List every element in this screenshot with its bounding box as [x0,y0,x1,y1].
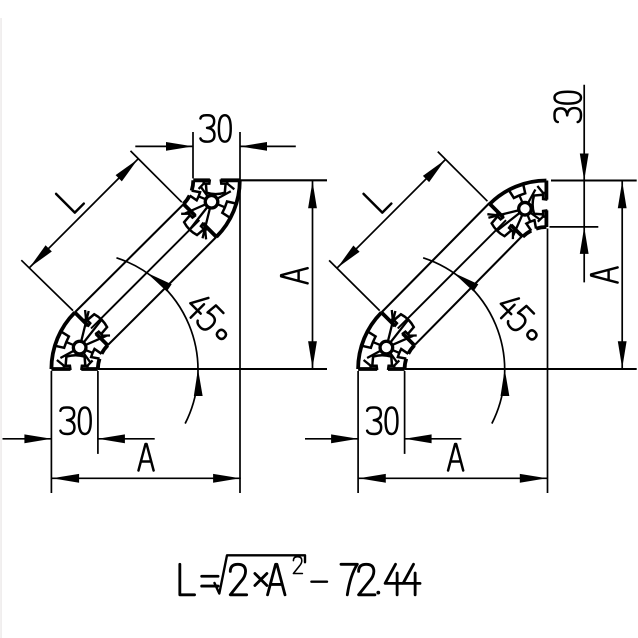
view 2: horizontal A dim right arrow [520,474,547,483]
view 1: label 30 (top) [200,115,230,141]
formula: letter A [268,564,285,595]
view 1: horizontal A dim line [51,477,240,479]
view 1: degree sign [215,328,227,340]
view 1: top 30 dim right arrow [240,142,267,151]
view 2: bar top edge [382,203,490,312]
view 2: horizontal A dim left arrow [359,474,386,483]
view 2: bottom 30 dim left tail [305,438,358,440]
formula: minus sign [311,581,327,583]
view 2: label L [364,185,392,213]
formula: equals sign [202,576,218,586]
view 1: horizontal A dim left arrow [52,474,79,483]
formula: square root radical [215,555,306,593]
view 2: vertical A dim line [621,181,623,370]
view 1: L dim lower arrow [26,245,51,270]
formula: L [180,564,195,595]
view 2: label 45 [494,292,535,333]
view 1: L dim upper extension line [131,151,182,202]
formula: multiplication sign [255,574,267,586]
view 2: vertical 30 dim line [583,85,585,283]
view 2: vertical 30 dim down arrow [580,154,589,181]
view 2: 45 degree angle arc [423,258,505,424]
view 1: extension line x=98 [97,371,99,454]
view 2: extension line x=405 [404,371,406,454]
view 2: vertical 30 dim up arrow [580,227,589,254]
view 1: angle arc baseline arrow [194,369,203,396]
formula: digit 4 [385,564,402,595]
view 1: label A (bottom) [138,444,153,470]
view 2: bar centre slot line [398,220,507,329]
view 1: bottom 30 dim right arrow [98,434,125,443]
view 2: label A (vertical) [591,267,617,282]
view 1: label 45 [183,292,224,333]
view 2: upper profile cross-section (end face right, mirrored) [484,181,547,243]
view 2: L dim lower arrow [334,245,359,270]
view 1: label 30 (bottom) [60,408,90,434]
view 2: bottom 30 dim right tail [405,438,462,440]
view 1: label A (vertical) [281,268,307,283]
formula: digit 4 (second) [403,564,420,595]
formula: digit 2 [359,564,375,595]
view 1: A dim top arrow [308,181,317,208]
view 1: baseline [98,368,327,370]
view 1: bottom 30 dim right tail [98,438,155,440]
view 1: bottom 30 dim left tail [3,438,52,440]
view 1: lower profile cross-section (end face down) [51,307,113,370]
view 2: L dim line [337,159,446,268]
formula: decimal point [376,591,380,595]
view 1: bar top edge [75,204,184,312]
formula: superscript 2 [293,557,302,574]
view 2: A dim bottom arrow [618,341,627,368]
formula: digit 2 [230,564,246,595]
view 1: horizontal A dim right arrow [213,474,240,483]
view 2: L dim lower extension line [329,260,380,310]
view 2: degree sign [526,329,538,341]
view 1: upper profile cross-section (end face up) [177,179,239,242]
view 2: A dim top arrow [618,181,627,208]
view 2: label 30 (rotated, top right) [555,92,581,122]
view 1: L dim line [29,159,138,268]
view 1: extension line left of top 30 dim [192,132,194,178]
view 2: angle arc upper arrow [451,269,478,291]
view 1: label L [56,185,84,213]
view 2: top extension line y=180 [551,179,637,181]
view 2: label A (bottom) [448,444,463,470]
view 2: bar bottom edge [414,236,522,345]
view 1: angle arc upper arrow [144,269,171,291]
view 2: lower profile cross-section (end face down) [358,307,420,370]
view 1: A dim bottom arrow [308,341,317,368]
view 1: 45 degree angle arc [116,258,198,424]
view 2: long construction line x=547 [547,229,549,494]
view 1: long construction line x=240 [239,132,241,493]
view 2: L dim upper arrow [423,157,448,182]
view 1: bar centre slot line [91,220,200,329]
view 1: L dim upper arrow [116,156,141,181]
view 2: horizontal A dim line [358,477,547,479]
view 2: L dim upper extension line [438,152,488,202]
view 2: angle arc baseline arrow [500,369,509,396]
view 2: extension line y=227 [550,226,599,228]
view 1: top face extension line [240,179,327,181]
formula: digit 7 [341,564,357,595]
view 1: extension line x=51 [50,371,52,493]
view 1: bottom 30 dim left arrow [24,434,51,443]
view 2: extension line x=358 [357,371,359,493]
view 1: bar bottom edge [108,237,217,345]
view 2: bottom 30 dim right arrow [405,434,432,443]
view 2: bottom 30 dim left arrow [331,434,358,443]
view 2: label 30 (bottom) [367,408,397,434]
view 1: top 30 dim left arrow [166,142,193,151]
view 1: L dim lower extension line [21,260,73,310]
view 2: baseline [405,368,637,370]
view 1: vertical A dim line [312,181,314,370]
view 1: top 30 dim line left tail [135,145,193,147]
view 1: top 30 dim line right tail [240,145,296,147]
